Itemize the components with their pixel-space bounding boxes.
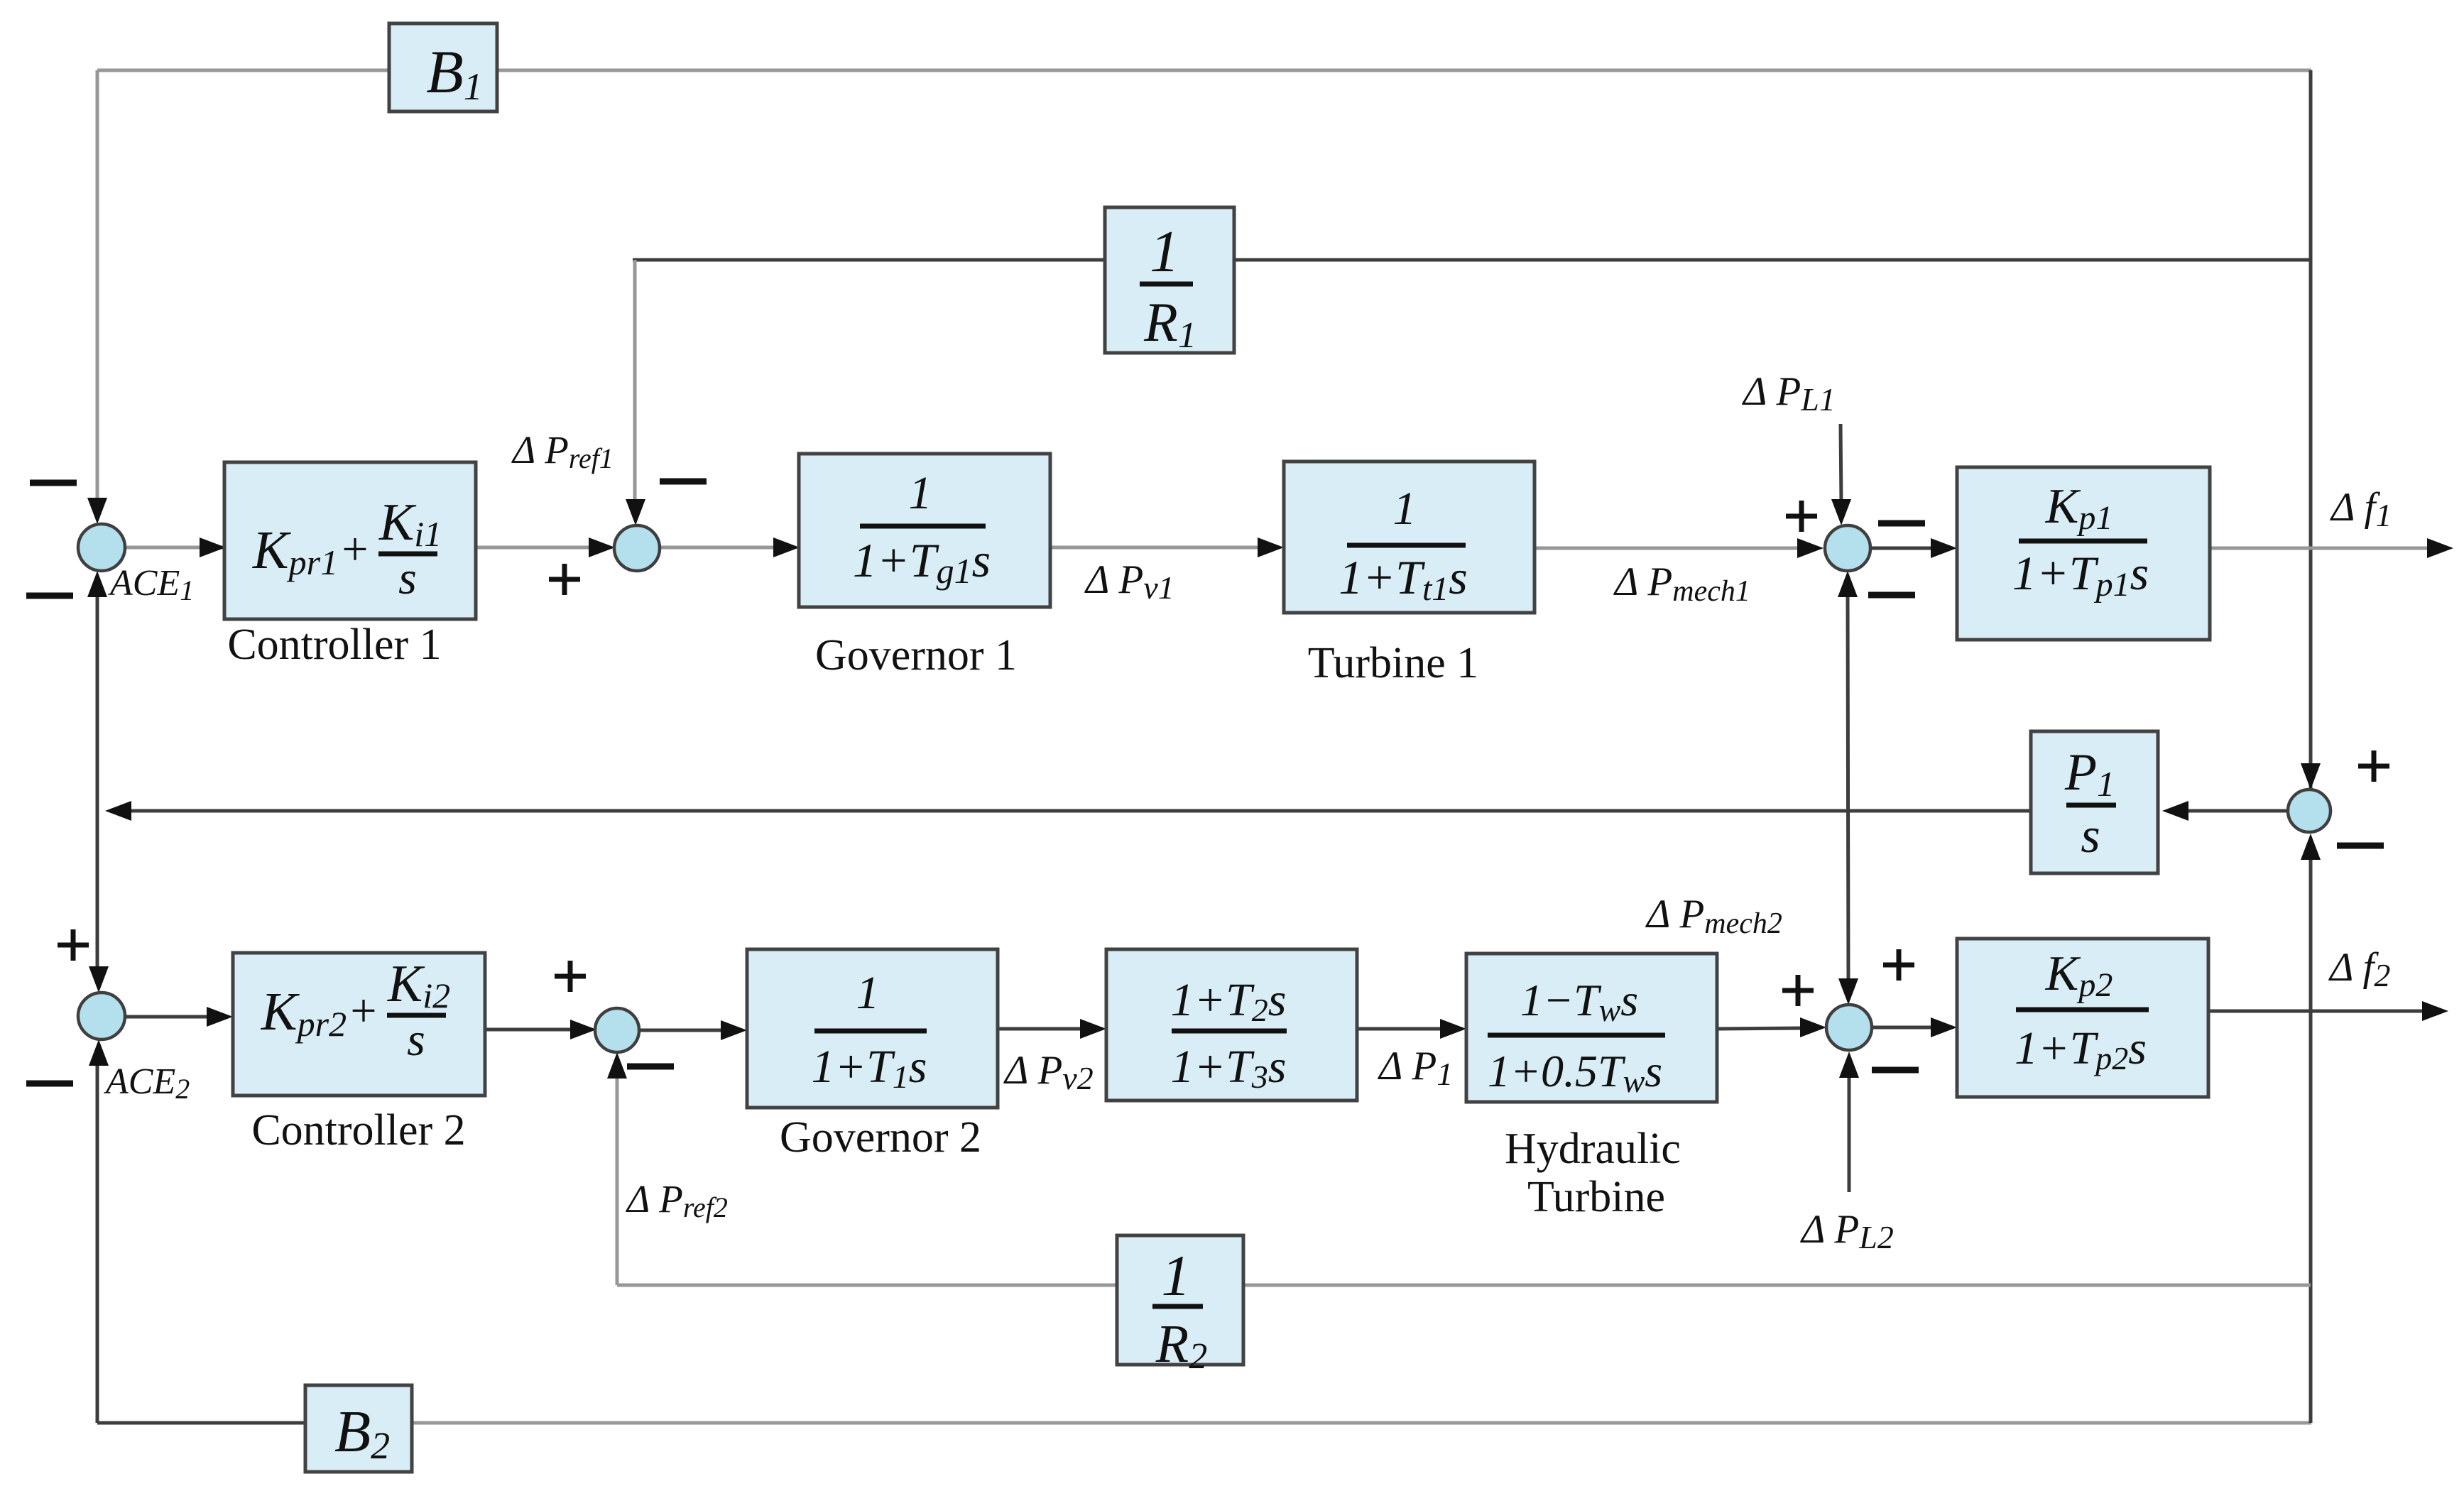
arrowhead tie into ACE2 top bbox=[89, 966, 109, 993]
summing junction S4 (tie-line df1-df2) bbox=[2288, 790, 2331, 832]
block 1/R1 bbox=[1105, 207, 1234, 356]
block Kp2 bbox=[1957, 939, 2208, 1097]
minus sign at S4 bottom input bbox=[2337, 843, 2384, 849]
minus sign at S6 bottom input bbox=[627, 1064, 674, 1070]
svg-text:Controller 1: Controller 1 bbox=[227, 621, 441, 669]
svg-text:Governor 2: Governor 2 bbox=[780, 1113, 981, 1162]
wire Kp1 output df1 bbox=[2210, 547, 2448, 550]
minus sign at S2 top input bbox=[660, 479, 707, 485]
block P1/s bbox=[2031, 731, 2158, 873]
minus sign at S5 bottom input bbox=[1872, 1067, 1919, 1074]
label ACE2 bbox=[104, 1061, 190, 1105]
caption Controller 2 bbox=[251, 1106, 465, 1154]
wire top B1 feedback bbox=[97, 69, 2311, 72]
minus sign at S3 top input bbox=[1878, 520, 1925, 527]
svg-text:1: 1 bbox=[856, 967, 880, 1019]
wire right trunk lower (df2 down to bottom) bbox=[2309, 1011, 2313, 1423]
svg-text:Controller 2: Controller 2 bbox=[251, 1106, 465, 1154]
arrowhead into Controller 2 bbox=[207, 1007, 233, 1027]
arrowhead into Controller 1 bbox=[200, 537, 226, 557]
wire right trunk upper (df1 up to B1 and down to tie junction) bbox=[2309, 70, 2313, 790]
minus sign at S3 bottom input bbox=[1868, 592, 1915, 599]
label dPref2 bbox=[626, 1177, 728, 1223]
summing junction S6 (before Governor 2) bbox=[595, 1008, 639, 1052]
plus sign at S4 top input bbox=[2358, 750, 2389, 782]
label dPL1 bbox=[1742, 369, 1836, 417]
plus sign at ACE2 top input bbox=[58, 929, 89, 961]
wire Governor 2 to compensator block bbox=[998, 1027, 1102, 1031]
arrowhead df1 into tie junction S4 top bbox=[2301, 763, 2321, 790]
svg-text:Governor 1: Governor 1 bbox=[815, 631, 1017, 679]
block 1/R2 bbox=[1117, 1235, 1243, 1377]
wire right trunk segment df2 up to tie junction bbox=[2309, 855, 2313, 1011]
svg-text:+: + bbox=[350, 985, 376, 1037]
summing junction S3 (area 1 power balance) bbox=[1825, 525, 1870, 571]
svg-text:1: 1 bbox=[909, 467, 932, 519]
caption Hydraulic Turbine line 1 bbox=[1505, 1125, 1681, 1173]
svg-text:Hydraulic: Hydraulic bbox=[1505, 1125, 1681, 1173]
wire Controller 2 to summing junction S6 bbox=[485, 1028, 575, 1032]
arrowhead into summing junction S3 bbox=[1797, 538, 1824, 558]
wire 1/R2 rise into summing junction S6 bbox=[616, 1075, 619, 1285]
block Governor 2 bbox=[747, 949, 998, 1108]
svg-text:s: s bbox=[398, 552, 417, 604]
wire Controller 1 to summing junction S2 bbox=[476, 546, 594, 550]
wire tie branch S3 to S5 vertical bbox=[1848, 594, 1848, 982]
wire summing junction S2 to Governor 1 bbox=[656, 546, 795, 550]
wire Hydraulic Turbine to summing junction S5 bbox=[1717, 1028, 1806, 1029]
block B1 bbox=[389, 23, 497, 111]
wire 1/R1 feedback horizontal bbox=[633, 258, 2311, 262]
caption Hydraulic Turbine line 2 bbox=[1527, 1173, 1665, 1221]
svg-text:+: + bbox=[342, 523, 368, 575]
minus sign at ACE1 top input bbox=[30, 480, 77, 486]
label dPL2 bbox=[1800, 1207, 1894, 1255]
block Controller 2 bbox=[233, 953, 485, 1096]
summing junction S2 (before Governor 1) bbox=[614, 525, 660, 571]
plus sign at S3 left input bbox=[1786, 501, 1817, 532]
arrowhead tie into S3 bottom bbox=[1838, 571, 1858, 597]
plus sign at S5 left input bbox=[1782, 975, 1814, 1006]
block B2 bbox=[305, 1385, 412, 1472]
arrowhead into summing junction S2 bbox=[589, 537, 615, 557]
svg-text:s: s bbox=[2081, 809, 2100, 863]
svg-text:1−Tws: 1−Tws bbox=[1520, 975, 1638, 1028]
arrowhead tie line into left trunk bbox=[105, 801, 131, 821]
arrowhead into S6 from 1/R2 bbox=[607, 1052, 627, 1079]
wire tie junction S4 into P1/s block bbox=[2184, 809, 2288, 813]
minus sign at ACE1 bottom input bbox=[26, 593, 73, 599]
wire summing junction S5 to Kp2 block bbox=[1872, 1026, 1953, 1030]
arrowhead into summing junction S5 bbox=[1800, 1017, 1826, 1037]
arrowhead B2 into ACE2 bottom bbox=[89, 1039, 109, 1066]
wire summing junction S3 to Kp1 block bbox=[1870, 547, 1953, 550]
arrowhead dPL2 into S5 bbox=[1839, 1052, 1859, 1078]
wire summing junction S6 to Governor 2 bbox=[639, 1029, 743, 1032]
label dPref1 bbox=[511, 428, 614, 474]
arrowhead df2 output bbox=[2422, 1001, 2448, 1021]
arrowhead into P1/s block bbox=[2162, 801, 2188, 821]
arrowhead B1 into ACE1 top bbox=[87, 498, 107, 524]
arrowhead into Turbine 1 bbox=[1258, 537, 1284, 557]
caption Turbine 1 bbox=[1308, 639, 1479, 687]
wire bottom B2 feedback left dark segment bbox=[97, 1421, 312, 1425]
wire Kp2 output df2 bbox=[2208, 1010, 2443, 1013]
svg-text:1+T3s: 1+T3s bbox=[1171, 1041, 1287, 1095]
label df1 bbox=[2330, 485, 2392, 533]
block compensator (1+T2s)/(1+T3s) bbox=[1106, 949, 1357, 1101]
arrowhead into Hydraulic Turbine bbox=[1440, 1019, 1466, 1039]
block Governor 1 bbox=[799, 454, 1050, 607]
svg-text:1: 1 bbox=[1162, 1243, 1191, 1308]
arrowhead tie into ACE1 bottom bbox=[87, 571, 107, 597]
block Kp1 bbox=[1957, 467, 2210, 640]
block Turbine 1 bbox=[1284, 462, 1534, 613]
block Controller 1 bbox=[224, 462, 476, 619]
arrowhead df1 output bbox=[2427, 538, 2453, 558]
arrowhead into Governor 2 bbox=[721, 1020, 747, 1040]
wire 1/R1 drop into summing junction S2 bbox=[633, 260, 637, 501]
label dPmech2 bbox=[1645, 892, 1782, 940]
label dP1 bbox=[1378, 1044, 1453, 1092]
arrowhead df2 into tie junction S4 bottom bbox=[2301, 834, 2321, 860]
wire 1/R2 feedback horizontal bbox=[617, 1284, 2311, 1287]
summing junction S1 (ACE1) bbox=[78, 524, 125, 571]
svg-text:Turbine: Turbine bbox=[1527, 1173, 1665, 1221]
wire ACE1 to Controller 1 bbox=[121, 546, 224, 550]
plus sign at S5 top input bbox=[1883, 949, 1914, 981]
svg-text:s: s bbox=[407, 1014, 425, 1066]
svg-text:1+Tt1s: 1+Tt1s bbox=[1339, 550, 1468, 608]
caption Controller 1 bbox=[227, 621, 441, 669]
label df2 bbox=[2328, 945, 2390, 993]
svg-text:Turbine 1: Turbine 1 bbox=[1308, 639, 1479, 687]
wire compensator to Hydraulic Turbine bbox=[1357, 1027, 1462, 1031]
summing junction S5 (area 2 power balance) bbox=[1826, 1005, 1872, 1050]
wire bottom B2 feedback bbox=[312, 1421, 2311, 1425]
wire dPL2 into summing junction S5 bbox=[1848, 1074, 1851, 1192]
wire tie line P1/s output to left trunk bbox=[128, 809, 2031, 813]
label dPmech1 bbox=[1613, 559, 1750, 608]
arrowhead into S2 from 1/R1 bbox=[626, 499, 645, 525]
label dPv2 bbox=[1003, 1048, 1094, 1096]
arrowhead into Kp1 block bbox=[1931, 538, 1957, 558]
minus sign at ACE2 bottom input bbox=[26, 1081, 73, 1087]
plus sign at S6 left input bbox=[555, 961, 586, 992]
wire left trunk ACE1 to tie join bbox=[96, 592, 99, 811]
caption Governor 2 bbox=[780, 1113, 981, 1162]
label ACE1 bbox=[108, 563, 194, 606]
wire left trunk upper (B1 into ACE1) bbox=[96, 70, 99, 506]
arrowhead dPL1 into S3 bbox=[1831, 499, 1851, 525]
arrowhead into compensator block bbox=[1080, 1019, 1106, 1039]
caption Governor 1 bbox=[815, 631, 1017, 679]
wire left trunk tie join to ACE2 bbox=[96, 811, 99, 974]
wire dPL1 into summing junction S3 bbox=[1841, 424, 1841, 503]
block Hydraulic Turbine (1-Tws)/(1+0.5Tws) bbox=[1466, 954, 1717, 1102]
svg-text:1+T1s: 1+T1s bbox=[812, 1041, 927, 1095]
plus sign at S2 left input bbox=[549, 564, 580, 595]
wire ACE2 to Controller 2 bbox=[122, 1015, 229, 1019]
wire left trunk ACE2 to bottom bbox=[96, 1061, 99, 1423]
arrowhead into summing junction S6 bbox=[570, 1020, 596, 1039]
svg-text:1: 1 bbox=[1393, 483, 1417, 535]
svg-text:1: 1 bbox=[1150, 219, 1179, 285]
arrowhead into Governor 1 bbox=[773, 537, 800, 557]
summing junction S1b (ACE2) bbox=[78, 993, 125, 1039]
svg-text:1+T2s: 1+T2s bbox=[1171, 974, 1287, 1028]
label dPv1 bbox=[1084, 557, 1174, 606]
arrowhead into Kp2 block bbox=[1931, 1017, 1957, 1037]
arrowhead tie into S5 top bbox=[1838, 978, 1858, 1005]
wire Governor 1 to Turbine 1 bbox=[1050, 546, 1278, 550]
wire Turbine 1 to summing junction S3 bbox=[1534, 547, 1802, 550]
